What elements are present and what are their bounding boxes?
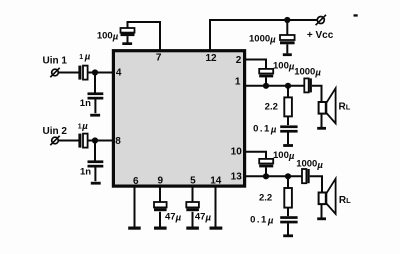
capacitor C11 1000u plates <box>302 169 310 183</box>
speaker LS1 <box>319 88 336 127</box>
wire R1 to C9 <box>287 116 289 125</box>
svg-text:12: 12 <box>205 53 217 64</box>
svg-text:9: 9 <box>158 176 164 187</box>
ground pin14 <box>210 227 223 230</box>
speaker LS2 <box>319 179 336 218</box>
pin 5 label <box>190 176 196 187</box>
terminal +Vcc <box>316 15 326 25</box>
wire pin7 top <box>128 22 161 50</box>
label RL1 <box>339 102 351 113</box>
capacitor C9 0.1u plates <box>280 125 297 144</box>
svg-text:100µ: 100µ <box>273 150 295 162</box>
label C11 1000u <box>296 159 323 171</box>
svg-text:6: 6 <box>133 176 139 187</box>
wire pin9 to C13 <box>159 186 161 202</box>
svg-text:13: 13 <box>231 171 243 182</box>
pin 14 label <box>210 176 222 187</box>
svg-text:1000µ: 1000µ <box>249 34 276 46</box>
pin 9 label <box>158 176 164 187</box>
label R1 2.2 <box>265 101 278 112</box>
capacitor C5 1u plates <box>78 134 87 148</box>
resistor R1 2.2 <box>284 97 292 116</box>
wire R2 to C12 <box>287 208 289 217</box>
capacitor C1 100u plates <box>121 28 135 43</box>
ground for C13 <box>154 227 167 230</box>
capacitor C4 1n plates <box>88 92 104 113</box>
ground for C14 <box>186 227 199 230</box>
label C5 1u <box>78 121 88 132</box>
pin 6 label <box>133 176 139 187</box>
label C4 1n <box>80 98 91 109</box>
wire pin5 to C14 <box>192 186 194 202</box>
capacitor C6 1n plates <box>88 160 104 181</box>
label C7 100u <box>273 60 295 72</box>
wire pin12 to Vcc <box>210 20 317 50</box>
capacitor C14 47u plates <box>186 202 199 227</box>
label C6 1n <box>80 167 91 178</box>
node E junction <box>263 173 269 179</box>
svg-text:1µ: 1µ <box>79 52 91 63</box>
pin 7 label <box>156 53 162 64</box>
svg-text:0.1µ: 0.1µ <box>253 123 278 135</box>
capacitor C10 100u plates <box>259 159 273 176</box>
ground for C9 <box>283 144 293 147</box>
svg-text:7: 7 <box>156 53 162 64</box>
node F junction <box>285 173 291 179</box>
capacitor C2 1000u plates <box>280 35 295 53</box>
wire junction to C4 <box>94 73 96 93</box>
wire C3 to pin4 <box>88 72 113 74</box>
svg-text:1000µ: 1000µ <box>296 159 323 171</box>
svg-text:2.2: 2.2 <box>265 101 278 112</box>
svg-text:1µ: 1µ <box>78 121 88 132</box>
pin 1 label <box>235 77 241 88</box>
svg-text:Uin 2: Uin 2 <box>43 126 68 137</box>
wire pin6 to ground <box>134 186 136 227</box>
svg-text:1n: 1n <box>80 167 91 178</box>
label +Vcc <box>307 30 334 41</box>
svg-text:47µ: 47µ <box>195 211 212 223</box>
label R2 2.2 <box>259 192 272 203</box>
svg-text:5: 5 <box>190 176 196 187</box>
capacitor C3 1u plates <box>78 66 87 80</box>
wire junction to C2 <box>286 20 288 35</box>
terminal Uin2 input <box>50 136 59 145</box>
capacitor C12 0.1u plates <box>280 216 297 234</box>
svg-text:14: 14 <box>210 176 222 187</box>
label C9 0.1u <box>253 123 278 135</box>
svg-text:2: 2 <box>236 55 242 66</box>
label Uin2 <box>43 126 68 137</box>
ground for LS1 <box>317 127 326 130</box>
label Uin1 <box>43 55 68 66</box>
ground for C4 <box>90 114 100 117</box>
wire pin2 stub <box>245 60 266 69</box>
label C2 1000u <box>249 34 276 46</box>
node A junction <box>92 69 98 75</box>
pin 4 label <box>116 67 122 78</box>
terminal Uin1 input <box>50 68 59 77</box>
wire C11 to speaker <box>310 176 322 192</box>
pin 8 label <box>115 136 121 147</box>
capacitor C13 47u plates <box>154 202 167 227</box>
svg-text:100µ: 100µ <box>97 31 119 43</box>
wire C5 to pin8 <box>88 140 113 142</box>
node C junction <box>263 83 269 89</box>
wire Uin1 to C3 <box>58 72 78 74</box>
ground for C2 <box>283 53 292 56</box>
dash mark top right <box>354 14 358 16</box>
node D junction <box>285 83 291 89</box>
label C1 100u <box>97 31 119 43</box>
capacitor C8 1000u plates <box>304 78 312 92</box>
wire node F to R2 <box>287 176 289 188</box>
ground for C1 <box>122 42 132 45</box>
wire pin14 to ground <box>215 186 217 227</box>
label C14 47u <box>195 211 212 223</box>
wire pin13 output <box>245 175 302 177</box>
label C8 1000u <box>294 67 321 79</box>
svg-text:1: 1 <box>235 77 241 88</box>
svg-text:1n: 1n <box>80 98 91 109</box>
label C3 1u <box>79 52 91 63</box>
svg-text:RL: RL <box>339 102 351 113</box>
wire C8 to speaker <box>312 86 322 102</box>
ground for C6 <box>91 182 101 185</box>
resistor R2 2.2 <box>284 188 292 208</box>
pin 2 label <box>236 55 242 66</box>
op-amp IC U1 body <box>113 51 244 186</box>
svg-text:8: 8 <box>115 136 121 147</box>
svg-text:2.2: 2.2 <box>259 192 272 203</box>
node Vcc junction <box>284 17 290 23</box>
pin 12 label <box>205 53 217 64</box>
label RL2 <box>339 195 351 206</box>
label C13 47u <box>165 211 182 223</box>
svg-text:RL: RL <box>339 195 351 206</box>
label C10 100u <box>273 150 295 162</box>
wire pin10 stub <box>245 152 266 159</box>
wire Uin2 to C5 <box>58 140 78 142</box>
svg-text:Uin 1: Uin 1 <box>43 55 68 66</box>
pin 10 label <box>231 147 243 158</box>
pin 13 label <box>231 171 243 182</box>
label C12 0.1u <box>250 214 275 226</box>
svg-text:47µ: 47µ <box>165 211 182 223</box>
ground pin6 <box>128 227 141 230</box>
svg-text:+ Vcc: + Vcc <box>307 30 334 41</box>
ground for C12 <box>283 234 293 237</box>
svg-text:4: 4 <box>116 67 122 78</box>
wire node D to R1 <box>287 86 289 98</box>
ground for LS2 <box>317 217 326 220</box>
node B junction <box>92 137 98 143</box>
wire pin1 output <box>245 85 305 87</box>
capacitor C7 100u plates <box>259 69 273 86</box>
svg-text:1000µ: 1000µ <box>294 67 321 79</box>
svg-text:100µ: 100µ <box>273 60 295 72</box>
svg-text:10: 10 <box>231 147 243 158</box>
wire junction to C6 <box>94 141 96 161</box>
svg-text:0.1µ: 0.1µ <box>250 214 275 226</box>
